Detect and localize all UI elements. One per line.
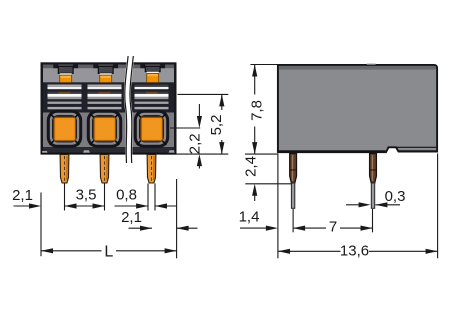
front view: terminal block body xyxy=(41,62,177,154)
break line (variable length L) xyxy=(125,56,134,163)
pole 2 push-button tab xyxy=(93,65,118,83)
dimension 0,8 xyxy=(115,187,177,209)
pole 2 clamp-spring slats xyxy=(88,85,122,110)
svg-text:3,5: 3,5 xyxy=(76,187,97,204)
svg-text:2,1: 2,1 xyxy=(12,187,33,204)
pole 3 clamp-spring slats xyxy=(135,85,169,110)
pole 3 push-button tab xyxy=(140,65,165,83)
svg-text:0,3: 0,3 xyxy=(385,188,406,205)
dimension 2,1 (left) xyxy=(12,187,41,209)
side view pin (left) xyxy=(290,154,297,209)
pole 2 actuation opening xyxy=(88,111,120,146)
pole 3 actuation opening xyxy=(135,111,167,146)
side view: terminal block body xyxy=(278,64,437,153)
svg-text:1,4: 1,4 xyxy=(239,209,260,226)
pole 1 push-button tab xyxy=(53,65,78,83)
pole 1 actuation opening xyxy=(48,111,80,146)
dimension 5,2 (rotated) xyxy=(208,94,225,154)
dimension 1,4 xyxy=(239,154,278,259)
dimension 3,5 xyxy=(65,187,105,209)
dimension 2,1 (right) xyxy=(121,209,197,231)
front view solder pins xyxy=(60,155,156,184)
extension lines, front view xyxy=(41,94,228,258)
svg-text:7: 7 xyxy=(329,219,337,236)
svg-text:2,4: 2,4 xyxy=(243,156,260,177)
svg-text:L: L xyxy=(104,243,113,260)
svg-text:7,8: 7,8 xyxy=(248,100,265,121)
svg-text:2,1: 2,1 xyxy=(121,209,142,226)
front view bottom notches xyxy=(41,150,177,154)
dimension 13,6 xyxy=(278,154,438,260)
svg-text:0,8: 0,8 xyxy=(116,187,137,204)
svg-text:13,6: 13,6 xyxy=(340,243,369,260)
svg-text:2,2: 2,2 xyxy=(186,133,203,154)
side view pin (right) xyxy=(370,154,377,209)
dimension 7,8 (rotated) xyxy=(248,65,278,155)
pole 1 clamp-spring slats xyxy=(48,85,82,110)
svg-text:5,2: 5,2 xyxy=(208,115,225,136)
dimension 2,2 (rotated) xyxy=(186,104,203,169)
dimension 0,3 xyxy=(346,188,405,208)
dimension 2,4 (rotated) xyxy=(243,154,292,201)
dimension 7 xyxy=(293,209,372,236)
dimension L xyxy=(41,243,177,260)
